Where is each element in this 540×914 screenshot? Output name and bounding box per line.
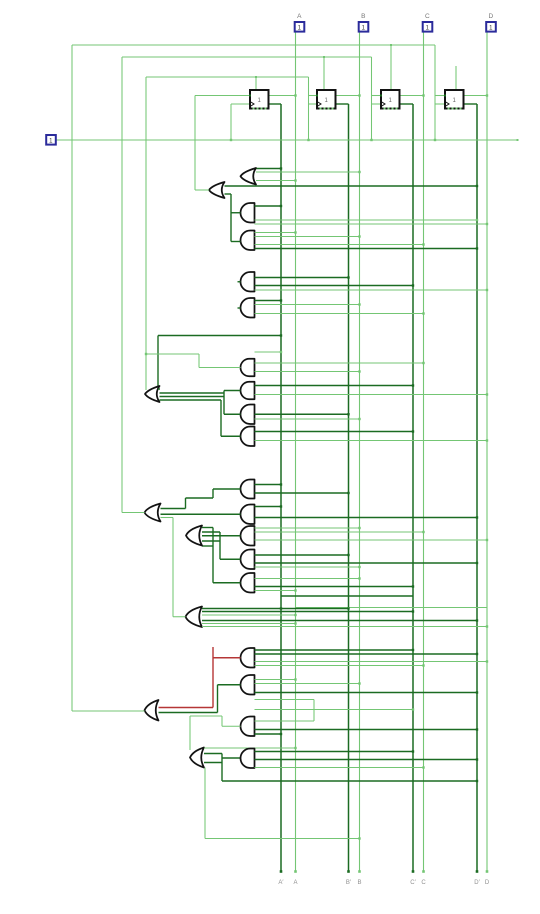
- svg-text:D′: D′: [474, 880, 480, 886]
- svg-text:A: A: [293, 880, 297, 886]
- svg-text:A: A: [297, 13, 302, 20]
- svg-text:B: B: [357, 880, 361, 886]
- svg-text:C: C: [421, 880, 426, 886]
- svg-text:B′: B′: [346, 880, 352, 886]
- svg-text:C: C: [425, 13, 430, 20]
- svg-text:A′: A′: [278, 880, 284, 886]
- svg-text:D: D: [488, 13, 493, 20]
- svg-text:C′: C′: [410, 880, 416, 886]
- svg-text:D: D: [485, 880, 490, 886]
- svg-text:B: B: [361, 13, 365, 20]
